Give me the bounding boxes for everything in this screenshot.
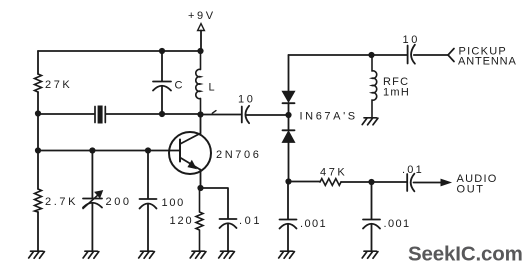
node dot audio junction 2 <box>368 179 374 185</box>
resistor 47K <box>320 179 341 186</box>
svg-text:+9V: +9V <box>188 10 216 22</box>
diode D2 1N67A bottom <box>283 115 295 182</box>
transistor emitter <box>180 158 201 189</box>
capacitor C leads <box>161 51 163 114</box>
label PICKUP ANTENNA <box>458 46 517 68</box>
diode D1 1N67A top <box>283 55 295 115</box>
svg-text:47K: 47K <box>320 167 347 179</box>
variable capacitor 200 <box>83 151 102 252</box>
crystal Y1 <box>95 106 105 124</box>
wire crystal rail y=114 <box>38 114 289 115</box>
ground 2.7K <box>29 251 45 258</box>
ground 200 <box>83 251 99 258</box>
svg-text:L: L <box>209 82 218 94</box>
power +9V label <box>188 10 216 22</box>
label AUDIO OUT <box>457 173 498 196</box>
capacitor .01 (emitter) <box>201 188 237 251</box>
ground .01 <box>219 251 235 258</box>
resistor 120 <box>196 188 203 251</box>
capacitor 10 (pickup series) <box>408 45 415 64</box>
svg-text:100: 100 <box>162 197 185 209</box>
label .01 (audio) <box>402 164 424 176</box>
label .001 (right) <box>384 218 411 230</box>
label L <box>209 82 218 94</box>
label 200 <box>106 196 132 208</box>
resistor R 2.7K body <box>35 189 42 212</box>
node dot RFC top <box>368 52 374 58</box>
ground 100 <box>139 251 155 258</box>
node dot var cap top <box>89 147 95 153</box>
watermark SeekIC.com <box>408 243 523 266</box>
label 27K <box>45 79 72 91</box>
wire base rail y=150.5 <box>38 150 180 152</box>
ground .001 right <box>362 251 378 258</box>
transistor collector <box>180 115 201 145</box>
stray tick mark <box>212 111 216 114</box>
svg-text:IN67A'S: IN67A'S <box>300 111 358 123</box>
capacitor 100 <box>140 151 157 252</box>
ground 120 <box>190 251 206 258</box>
label 10 (pickup) <box>403 34 420 46</box>
transistor Q1 2N706 circle <box>169 132 211 174</box>
svg-text:27K: 27K <box>45 79 72 91</box>
node dot base rail x38 <box>35 147 41 153</box>
svg-text:2.7K: 2.7K <box>45 196 78 208</box>
power +9V arrow <box>198 24 205 31</box>
svg-text:SeekIC.com: SeekIC.com <box>408 243 523 266</box>
node dot diode junction <box>285 112 291 118</box>
capacitor .001 (left) <box>280 182 297 252</box>
svg-text:ANTENNA: ANTENNA <box>458 56 517 68</box>
pickup antenna connector <box>448 49 454 62</box>
svg-text:C: C <box>175 80 186 92</box>
label IN67A'S <box>300 111 358 123</box>
audio out arrow <box>441 179 451 185</box>
transistor base bar <box>179 140 181 162</box>
svg-text:10: 10 <box>403 34 420 46</box>
svg-text:.001: .001 <box>300 218 327 230</box>
inductor L coil <box>196 51 201 114</box>
node dot crystal rail left <box>35 110 41 116</box>
wire pickup rail y=55 <box>289 54 449 56</box>
capacitor .001 (right) <box>363 182 380 251</box>
svg-text:200: 200 <box>106 196 132 208</box>
label RFC 1mH <box>383 76 410 99</box>
capacitor C plates <box>153 82 171 91</box>
node dot audio junction 1 <box>285 178 291 184</box>
wire +9V lead down <box>200 31 202 52</box>
svg-text:10: 10 <box>238 94 255 106</box>
ground .001 left <box>279 251 295 258</box>
label .01 (emitter) <box>239 215 262 227</box>
wire audio rail y=182 <box>289 182 442 183</box>
ground RFC <box>362 118 378 125</box>
label 2.7K <box>45 196 78 208</box>
svg-text:.01: .01 <box>402 164 424 176</box>
capacitor 10 (left series) plates <box>242 106 249 123</box>
resistor R 27K body <box>35 74 42 92</box>
svg-text:.001: .001 <box>384 218 411 230</box>
inductor RFC 1mH <box>372 55 377 118</box>
label 100 <box>162 197 185 209</box>
node dot emitter <box>197 185 203 191</box>
node dot +9V junction <box>197 48 203 54</box>
label 10 (left) <box>238 94 255 106</box>
node dot L bottom / collector <box>197 111 203 117</box>
svg-text:1mH: 1mH <box>383 87 410 99</box>
label 2N706 <box>216 149 261 161</box>
wire top +9V rail <box>38 50 200 52</box>
label 47K <box>320 167 347 179</box>
label .001 (left) <box>300 218 327 230</box>
svg-text:OUT: OUT <box>457 184 485 196</box>
svg-text:.01: .01 <box>239 215 262 227</box>
label 120 <box>170 215 194 227</box>
wire left vertical bus x=38 <box>37 51 39 251</box>
node dot C bottom <box>159 111 165 117</box>
capacitor .01 (audio series) <box>407 174 414 192</box>
svg-text:120: 120 <box>170 215 194 227</box>
label C <box>175 80 186 92</box>
node dot C top <box>159 48 165 54</box>
node dot 100 top <box>145 147 151 153</box>
svg-text:2N706: 2N706 <box>216 149 261 161</box>
